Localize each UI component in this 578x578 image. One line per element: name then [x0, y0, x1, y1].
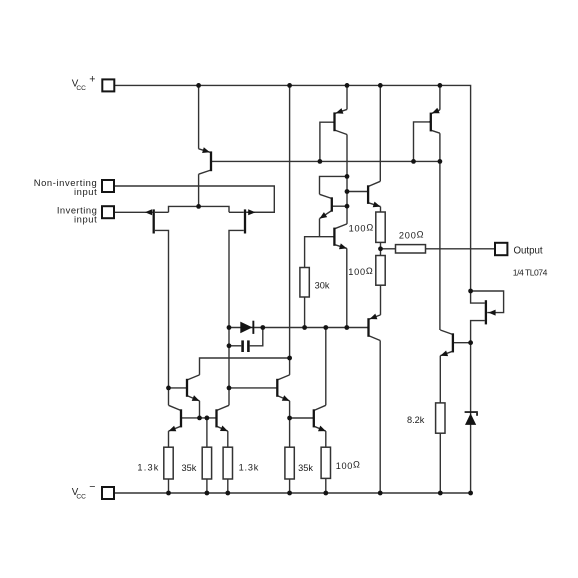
wire zener branch [470, 343, 472, 493]
JFET J1 input left [145, 209, 154, 233]
label R10 8.2k [407, 415, 425, 425]
svg-text:input: input [74, 213, 97, 224]
label VCC+ [72, 73, 96, 92]
wire Q2 collector vertical A [346, 135, 348, 224]
wire Q1 collector to JFET sources [198, 174, 200, 206]
wire VCC- rail [114, 492, 471, 494]
label non-inverting input [34, 177, 98, 197]
node cap tap [227, 343, 232, 348]
node JFET sources [196, 204, 201, 209]
node comp-Q6 [344, 325, 349, 330]
node Q9 base [166, 386, 171, 391]
node rail-Q3 [438, 83, 443, 88]
node rail- Q7 [378, 491, 383, 496]
svg-text:200Ω: 200Ω [399, 229, 424, 240]
svg-text:1.3k: 1.3k [239, 463, 260, 473]
wire VCC+ rail [114, 85, 470, 291]
transistor Q2 [333, 108, 347, 134]
transistor Q9 [186, 375, 200, 401]
node comp-30k [302, 325, 307, 330]
transistor Q4 [320, 194, 348, 218]
wire R1 bottom [168, 479, 170, 493]
resistor R5 100ohm [321, 447, 330, 478]
wire R2 drop [206, 418, 208, 447]
wire output line [426, 248, 496, 250]
svg-text:CC: CC [76, 85, 86, 92]
transistor Q7 [367, 314, 381, 341]
label VCC- [72, 481, 96, 500]
wire mirror base line [181, 417, 217, 419]
wire Q8 emitter to R10 [439, 356, 441, 403]
node A1 [345, 174, 350, 179]
transistor Q3 [429, 108, 440, 134]
node rail- R5 [323, 491, 328, 496]
resistor R3 1.3k [223, 447, 232, 479]
capacitor C1 [241, 340, 249, 352]
wire non-inverting input loop [114, 186, 274, 212]
wire Q6 base / 30k top [305, 237, 335, 268]
svg-text:CC: CC [76, 493, 86, 500]
wire capacitor left tap [229, 345, 241, 347]
wire compensation node line [229, 327, 369, 329]
diode D1 [240, 321, 254, 334]
svg-text:30k: 30k [315, 280, 330, 290]
node comp-Q13 [323, 325, 328, 330]
transistor Q10 [169, 405, 183, 431]
terminal inverting input [102, 206, 114, 218]
terminal VCC+ [102, 79, 114, 91]
wire Q13 collector up [325, 328, 327, 406]
wire Q4 collector loop [320, 176, 348, 194]
wire Q9 emitter down [199, 401, 201, 418]
wire output node to 200 ohm [381, 242, 396, 255]
label R3 1.3k [239, 463, 260, 473]
wire Q13 base [290, 417, 314, 419]
terminal non-inverting input [102, 180, 114, 192]
wire J3 gate loop [471, 291, 504, 313]
wire Q11 emitter to R3 [227, 431, 229, 447]
label output [514, 245, 543, 256]
wire Q12 emitter to R4 [289, 401, 291, 447]
wire R5 bottom [325, 478, 327, 493]
wire Q5 emitter to R7 [380, 207, 382, 212]
node rail- zener [468, 491, 473, 496]
wire R3 bottom [227, 479, 229, 493]
wire R10 bottom [439, 433, 441, 493]
label R5 100ohm [336, 460, 361, 471]
wire R8 bottom to Q7 emitter [380, 285, 382, 315]
wire input pair source rail [169, 206, 230, 212]
wire J1 bottom lead [155, 230, 169, 405]
wire Q9 collector loop [200, 358, 290, 375]
svg-text:Output: Output [514, 245, 543, 256]
wire J1 top lead [155, 211, 169, 213]
wire J2 top lead [229, 211, 244, 213]
transistor Q5 [367, 181, 381, 207]
wire Q3 collector down [439, 133, 441, 330]
wire Q13 emitter to R5 [325, 431, 327, 447]
node comp-J2 drain [227, 325, 232, 330]
wire Q7 collector to VCC- rail [379, 341, 381, 494]
svg-text:35k: 35k [182, 463, 197, 473]
label R1 1.3k [137, 463, 159, 473]
wire Q6 emitter down [346, 248, 348, 327]
wire R2 bottom [206, 479, 208, 493]
label 1/4 TL074 [513, 267, 548, 277]
svg-text:1/4 TL074: 1/4 TL074 [513, 267, 548, 277]
wire J3 top lead [471, 291, 485, 303]
wire inverting input [114, 211, 153, 213]
svg-text:1.3k: 1.3k [137, 463, 159, 473]
JFET J3 output [486, 300, 496, 324]
wire Q3 emitter from rail [439, 85, 441, 109]
wire Q2 emitter from rail [346, 85, 348, 109]
wire Q4 emitter down [319, 219, 321, 237]
svg-text:8.2k: 8.2k [407, 415, 425, 425]
node base line end [438, 159, 443, 164]
node Q12 base [227, 386, 232, 391]
label R8 100ohm [348, 266, 373, 277]
svg-text:+: + [89, 73, 95, 85]
node Q13 base [287, 416, 292, 421]
wire J3 bottom lead [471, 321, 485, 343]
label R6 30k [315, 280, 330, 290]
terminal output [495, 243, 507, 255]
transistor Q1 [199, 147, 212, 174]
wire Q10 emitter to R1 [168, 431, 170, 447]
transistor Q8 [440, 330, 454, 356]
label R7 100ohm [349, 223, 374, 234]
wire Q3 base drop [414, 122, 431, 161]
node base line Q2 [318, 159, 323, 164]
node rail- R10 [438, 491, 443, 496]
terminal VCC- [102, 487, 114, 499]
node rail- R4 [287, 491, 292, 496]
transistor Q11 [216, 405, 230, 431]
node rail-Q2 [345, 83, 350, 88]
node Q9 collector [287, 356, 292, 361]
wire top bias base line [211, 160, 440, 162]
label R2 35k [182, 463, 197, 473]
node mirror base b [205, 416, 210, 421]
resistor R9 200ohm [396, 245, 426, 253]
node base line Q3 [411, 159, 416, 164]
JFET J2 input right [245, 209, 274, 233]
wire 30k bottom [304, 297, 306, 328]
node comp-diode [260, 325, 265, 330]
wire R4 bottom [289, 479, 291, 493]
transistor Q13 [314, 405, 326, 431]
node output divider [378, 246, 383, 251]
resistor R6 30k [300, 268, 309, 298]
resistor R7 100ohm [376, 212, 385, 242]
node rail-Q1 [196, 83, 201, 88]
node J3 drain [468, 289, 473, 294]
wire Q5 collector to rail [379, 85, 381, 181]
resistor R1 1.3k [164, 447, 173, 479]
node rail- R3 [225, 491, 230, 496]
node rail-QfeedA [287, 83, 292, 88]
node A3 [345, 204, 350, 209]
wire VCC feed to Q9/Q12 collectors [289, 85, 291, 375]
resistor R2 35k [202, 447, 211, 479]
wire Q1 emitter from rail [198, 85, 200, 148]
svg-text:100Ω: 100Ω [349, 223, 374, 234]
resistor R8 100ohm [376, 256, 385, 286]
node A2 [345, 189, 350, 194]
svg-text:35k: 35k [298, 463, 313, 473]
label R9 200ohm [399, 229, 424, 240]
svg-text:−: − [89, 481, 95, 493]
svg-text:input: input [74, 186, 97, 197]
wire J2 bottom lead [229, 230, 244, 405]
svg-text:100Ω: 100Ω [348, 266, 373, 277]
resistor R10 8.2k [436, 403, 445, 433]
node rail- R2 [205, 491, 210, 496]
label R4 35k [298, 463, 313, 473]
svg-text:100Ω: 100Ω [336, 460, 361, 471]
node rail- R1 [166, 491, 171, 496]
transistor Q12 [277, 375, 289, 401]
wire capacitor right to diode cathode [250, 328, 263, 346]
wire Q5 base [347, 191, 368, 193]
zener diode D2 [465, 411, 478, 425]
wire Q2 base drop [320, 122, 335, 161]
node mirror base a [197, 416, 202, 421]
transistor Q6 [333, 224, 347, 249]
node rail-Q5 [378, 83, 383, 88]
node Q8 base [468, 340, 473, 345]
wire Q12 base [229, 387, 277, 389]
wire Q8 base [453, 342, 471, 344]
resistor R4 35k [285, 447, 294, 479]
wire Q9 base [169, 387, 188, 389]
label inverting input [57, 205, 97, 225]
